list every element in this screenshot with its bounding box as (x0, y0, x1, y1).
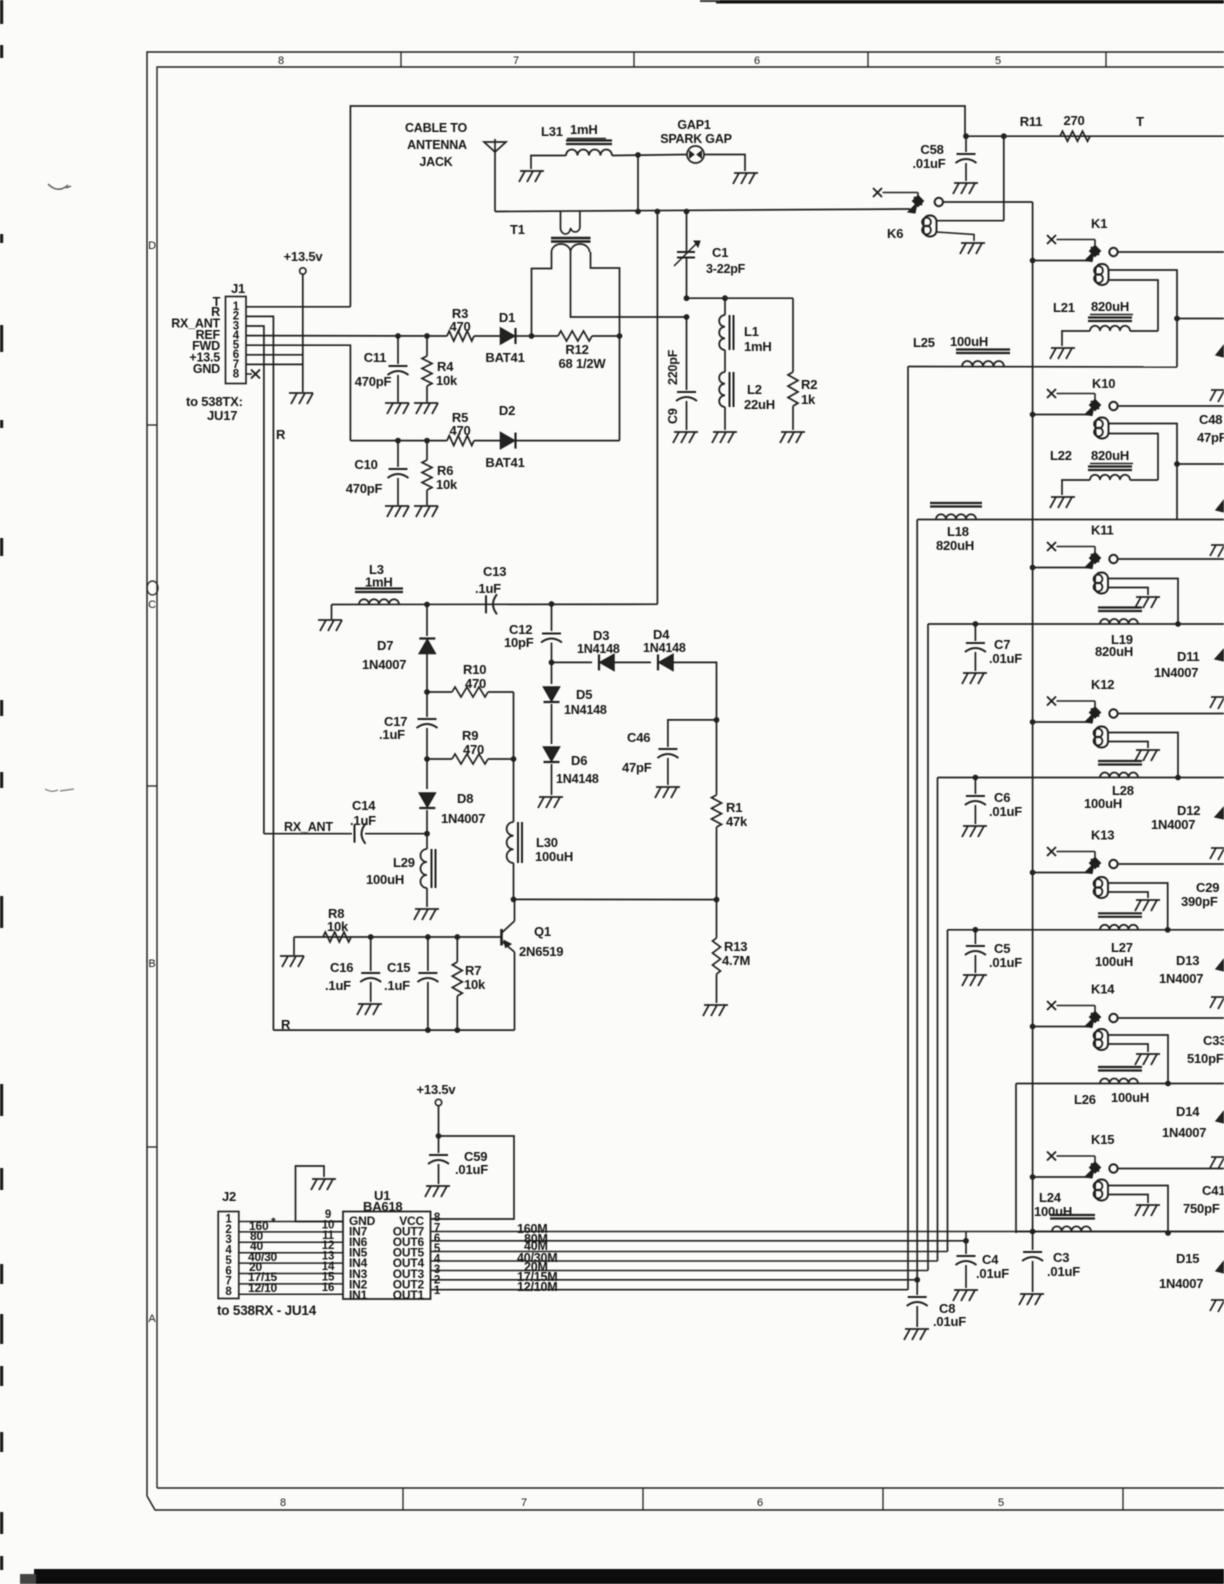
ground L31 (520, 170, 544, 172)
svg-text:to 538TX:: to 538TX: (186, 394, 243, 409)
svg-text:390pF: 390pF (1181, 894, 1218, 909)
svg-text:L1: L1 (744, 324, 759, 339)
diode D11 partial (1215, 649, 1224, 661)
wire row L24 (1016, 1231, 1224, 1233)
wire antenna bus (495, 209, 910, 212)
svg-text:D6: D6 (571, 753, 587, 768)
node R13 top (714, 897, 720, 903)
svg-text:10k: 10k (436, 477, 458, 492)
wire K14 coil bottom to ground (1108, 1044, 1148, 1052)
wire K6 circle to right bus (942, 201, 1032, 203)
svg-text:K11: K11 (1091, 523, 1114, 538)
svg-text:5: 5 (995, 55, 1001, 67)
inductor L24 (1050, 1214, 1095, 1216)
wire K11 output to edge (1118, 558, 1224, 560)
node C1 bottom (684, 295, 690, 301)
ground C3 (1020, 1293, 1044, 1295)
ground C58 (954, 182, 978, 184)
ground R4 (414, 402, 438, 404)
svg-text:C4: C4 (982, 1252, 999, 1267)
ground C59 (426, 1185, 450, 1187)
node K6 drop (1001, 133, 1007, 139)
inductor L28 (1098, 760, 1142, 762)
wire antenna column down to L3 row (656, 212, 658, 605)
node C46 tap (714, 717, 720, 723)
diode D10 partial (1216, 500, 1224, 512)
svg-text:C46: C46 (627, 730, 650, 745)
wire J1 pin2 R-net down (246, 316, 273, 1030)
svg-text:1N4148: 1N4148 (564, 703, 607, 717)
relay coil K6 (922, 218, 931, 227)
wire row L26 (1016, 1083, 1224, 1085)
svg-text:220pF: 220pF (666, 349, 680, 385)
svg-text:IN1: IN1 (349, 1288, 368, 1302)
relay coil K12 (1094, 729, 1103, 738)
wire C4 stub up (965, 1232, 967, 1241)
svg-text:R1: R1 (726, 800, 742, 815)
svg-text:D8: D8 (457, 791, 473, 806)
svg-text:10pF: 10pF (504, 635, 534, 650)
wire J1 pin5 FWD to T vertical (246, 345, 350, 440)
svg-text:D11: D11 (1177, 649, 1200, 664)
wire L27 corner vertical to bundle (947, 930, 949, 1252)
svg-text:C9: C9 (666, 408, 680, 424)
ground U1 (312, 1178, 336, 1180)
svg-text:2N6519: 2N6519 (519, 944, 563, 959)
svg-text:Q1: Q1 (534, 924, 551, 939)
ground C11 (385, 402, 409, 404)
wire L21 left to ground (1062, 331, 1090, 346)
wire collector row to R13 (514, 898, 717, 900)
svg-text:A: A (148, 1313, 156, 1325)
wire L18 row (917, 519, 1224, 521)
svg-text:R: R (281, 1017, 291, 1032)
svg-text:L25: L25 (913, 335, 935, 350)
svg-text:R2: R2 (801, 377, 817, 392)
svg-text:L2: L2 (747, 382, 762, 397)
node L1 top (722, 295, 728, 301)
wire L31 left to ground (531, 156, 566, 170)
svg-text:D3: D3 (593, 628, 609, 643)
svg-text:470pF: 470pF (346, 481, 383, 496)
svg-text:D: D (148, 240, 156, 252)
wire K15 input from bus (1033, 1176, 1089, 1178)
svg-text:C3: C3 (1053, 1250, 1069, 1265)
svg-text:BAT41: BAT41 (485, 350, 524, 365)
node L3/D7 junction (424, 602, 430, 608)
ground K6 coil (961, 242, 985, 244)
scan artifact: left edge dashes (0, 0, 3, 24)
svg-text:C16: C16 (330, 960, 353, 975)
svg-text:1N4007: 1N4007 (362, 657, 406, 672)
node C7 tap (973, 621, 979, 627)
svg-text:+13.5v: +13.5v (284, 249, 324, 264)
svg-text:B: B (148, 958, 155, 970)
wire K11 coil bottom to ground (1108, 588, 1148, 596)
wire K10 coil top to right vertical (1109, 424, 1178, 520)
antenna symbol (494, 139, 496, 212)
svg-text:820uH: 820uH (1091, 448, 1129, 463)
svg-text:R4: R4 (437, 359, 454, 374)
node K1 aux (1174, 316, 1180, 322)
zone ticks bottom (402, 1488, 404, 1510)
ground L21 (1051, 347, 1075, 349)
svg-text:K10: K10 (1092, 376, 1115, 391)
svg-text:1mH: 1mH (365, 575, 393, 590)
svg-text:1N4007: 1N4007 (1159, 971, 1203, 986)
svg-text:750pF: 750pF (1183, 1201, 1220, 1216)
wire +13.5v to C59 and VCC (438, 1106, 440, 1153)
svg-text:4.7M: 4.7M (722, 953, 750, 968)
svg-text:D2: D2 (499, 403, 515, 418)
ground C8 (905, 1328, 929, 1330)
ground C5 (963, 974, 987, 976)
inductor L19 (1098, 606, 1142, 608)
wire U1 GND loop to ground (296, 1166, 344, 1222)
wire L3 left to ground (331, 605, 333, 620)
node C16 tap (368, 934, 374, 940)
node T1 right leg (617, 333, 623, 339)
node R7 tap (454, 934, 460, 940)
wire T1 right leg to D2 row (619, 336, 621, 441)
wire L31 right (612, 155, 687, 156)
svg-text:510pF: 510pF (1187, 1051, 1224, 1066)
diode D15 partial (1216, 1261, 1224, 1273)
svg-text:1N4007: 1N4007 (1151, 817, 1195, 832)
ground K13 coil (1136, 899, 1160, 901)
wire K14 input from bus (1033, 1026, 1089, 1028)
svg-text:C1: C1 (712, 245, 728, 260)
svg-text:R13: R13 (724, 939, 747, 954)
relay coil K15 (1094, 1182, 1103, 1191)
svg-text:1mH: 1mH (570, 122, 598, 137)
wire K12 output to edge (1118, 713, 1224, 715)
node R4 tap (424, 333, 430, 339)
wire top box from T-net to R11 node (350, 106, 965, 307)
wire K1 coil top to right vertical (1109, 270, 1178, 367)
svg-text:D7: D7 (377, 638, 393, 653)
ground C16 (358, 1003, 382, 1005)
svg-text:1N4007: 1N4007 (1162, 1125, 1206, 1140)
svg-text:*: * (271, 1215, 276, 1229)
resistor R12 (532, 335, 559, 337)
diode D9 partial (1216, 345, 1224, 357)
svg-text:R9: R9 (462, 728, 478, 743)
svg-text:C29: C29 (1196, 880, 1219, 895)
svg-text:R11: R11 (1020, 114, 1043, 129)
svg-text:C15: C15 (387, 960, 410, 975)
svg-text:.01uF: .01uF (989, 651, 1022, 666)
ground C10 (385, 505, 409, 507)
svg-text:K15: K15 (1091, 1132, 1114, 1147)
wire R11 row (965, 135, 1224, 137)
node bus L24 row (1030, 1229, 1036, 1235)
ground L3 (318, 619, 342, 621)
wire K14 coil top to vertical (1108, 1035, 1168, 1084)
scan artifact: bottom black bar (34, 1569, 1224, 1584)
svg-text:L27: L27 (1111, 940, 1133, 955)
svg-text:1N4007: 1N4007 (441, 811, 485, 826)
relay coil K13 (1094, 879, 1103, 888)
node C8 tap (914, 1277, 920, 1283)
svg-text:.1uF: .1uF (379, 727, 405, 742)
zone ticks top (400, 52, 402, 67)
node C4 tap (963, 1238, 969, 1244)
scan artifact: small circle on left border (147, 581, 158, 595)
svg-text:C11: C11 (364, 350, 387, 365)
wire K10 coil bottom to L22 (1109, 434, 1159, 481)
svg-text:3-22pF: 3-22pF (706, 262, 746, 276)
svg-text:L30: L30 (536, 835, 558, 850)
svg-text:8: 8 (233, 368, 240, 380)
wire K12 coil top to vertical (1108, 733, 1178, 778)
wire row L19 (928, 623, 1224, 625)
wire K10 input from bus (1033, 414, 1089, 416)
wire K15 output to edge (1118, 1168, 1224, 1170)
wire K10 output to edge (1118, 405, 1224, 407)
wire K13 coil top to vertical (1108, 883, 1168, 930)
svg-text:T1: T1 (510, 222, 525, 237)
ground K15 coil (1136, 1204, 1160, 1206)
ground K12 coil (1136, 749, 1160, 751)
wire L22 left to ground (1062, 480, 1090, 495)
svg-text:C10: C10 (354, 457, 377, 472)
svg-text:K6: K6 (887, 226, 903, 241)
wire K13 coil bottom to ground (1108, 892, 1148, 898)
svg-text:270: 270 (1063, 113, 1084, 128)
ground J1 pin7 (289, 392, 313, 394)
svg-text:OUT1: OUT1 (393, 1288, 425, 1302)
svg-text:GAP1: GAP1 (677, 118, 710, 132)
svg-text:K13: K13 (1091, 828, 1114, 843)
node R9/L30 (511, 756, 517, 762)
svg-text:.01uF: .01uF (1047, 1264, 1080, 1279)
svg-text:.01uF: .01uF (976, 1266, 1009, 1281)
svg-text:C6: C6 (994, 790, 1010, 805)
svg-text:ANTENNA: ANTENNA (407, 138, 467, 152)
svg-text:C48: C48 (1199, 412, 1222, 427)
wire junction down to bus (637, 155, 639, 212)
wire L22 right (1130, 479, 1158, 481)
svg-text:C33: C33 (1203, 1033, 1224, 1048)
svg-text:.01uF: .01uF (989, 955, 1022, 970)
svg-text:BAT41: BAT41 (485, 455, 524, 470)
svg-text:1mH: 1mH (744, 339, 772, 354)
wire K6 coil bottom to ground (937, 232, 975, 241)
svg-text:L24: L24 (1039, 1190, 1062, 1205)
svg-text:D1: D1 (499, 310, 515, 325)
wire K11 coil top to vertical (1108, 579, 1178, 625)
svg-text:820uH: 820uH (936, 538, 974, 553)
wire K11 input from bus (1033, 567, 1089, 569)
wire K1 aux to edge (1177, 318, 1224, 320)
ground R13 (704, 1004, 728, 1006)
wire R rail bottom (273, 1029, 514, 1031)
relay coil K1 (1094, 266, 1103, 275)
scan artifact: pencil mark upper-left (48, 184, 71, 189)
svg-text:7: 7 (513, 55, 519, 67)
wire K12 coil bottom to ground (1108, 742, 1148, 749)
svg-text:.1uF: .1uF (325, 978, 351, 993)
svg-text:L31: L31 (541, 124, 563, 139)
svg-text:JACK: JACK (419, 155, 452, 169)
svg-text:D5: D5 (576, 687, 592, 702)
ground C4 (954, 1289, 978, 1291)
svg-text:K1: K1 (1091, 216, 1107, 231)
wire T1 center tap (571, 252, 687, 317)
wire RX_ANT row (264, 833, 352, 835)
diode D13 partial (1216, 959, 1224, 971)
ground C46 (656, 786, 680, 788)
svg-text:+13.5v: +13.5v (417, 1082, 457, 1097)
wire L28 corner vertical to bundle (937, 778, 939, 1262)
wire L3 row (332, 603, 658, 605)
svg-text:100uH: 100uH (1095, 954, 1133, 969)
ground C9 (674, 431, 698, 433)
wire row L28 (938, 777, 1224, 779)
svg-text:12/10: 12/10 (248, 1281, 278, 1295)
ground R2 (781, 431, 805, 433)
wire L21 right (1130, 330, 1158, 332)
node C15 rail (425, 1027, 431, 1033)
wire J1 pin4 REF row (246, 335, 447, 337)
svg-text:J1: J1 (231, 281, 245, 296)
zone ticks left (147, 424, 157, 426)
wire K13 input from bus (1033, 872, 1089, 874)
wire bus to C1 column (686, 212, 688, 253)
svg-text:7: 7 (521, 1497, 527, 1509)
svg-text:10k: 10k (436, 373, 458, 388)
wire J1 pin3 RX_ANT down (246, 326, 264, 834)
svg-text:C41: C41 (1202, 1183, 1224, 1198)
svg-text:D4: D4 (653, 627, 670, 642)
svg-text:100uH: 100uH (535, 849, 573, 864)
svg-text:L21: L21 (1053, 300, 1075, 315)
svg-text:100uH: 100uH (366, 872, 404, 887)
svg-text:1N4007: 1N4007 (1154, 665, 1198, 680)
node C12 top (549, 601, 555, 607)
svg-text:16: 16 (322, 1282, 334, 1294)
svg-text:22uH: 22uH (744, 397, 775, 412)
svg-text:R7: R7 (465, 963, 481, 978)
svg-text:47k: 47k (726, 814, 748, 829)
wire R10 to L30 vertical (513, 692, 515, 759)
svg-text:L22: L22 (1050, 448, 1072, 463)
wire K13 output to edge (1118, 863, 1224, 865)
wire Q1 emitter down to rail (514, 952, 516, 1030)
wire T1 secondary left leg (532, 252, 552, 336)
wire L18 corner vertical to bundle (916, 520, 918, 1280)
svg-text:.01uF: .01uF (933, 1314, 966, 1329)
node C5 tap (973, 927, 979, 933)
node T1 left leg (529, 333, 535, 339)
svg-text:K14: K14 (1091, 982, 1115, 997)
scan artifact: pencil mark mid-left (45, 789, 74, 791)
no-connect X at J1 pin 8 (246, 373, 252, 375)
wire K15 coil top to vertical (1108, 1186, 1168, 1234)
svg-text:1: 1 (434, 1285, 441, 1297)
svg-text:6: 6 (754, 55, 760, 67)
svg-text:5: 5 (998, 1497, 1004, 1509)
wire row L27 (948, 929, 1224, 931)
node L31/GAP1 junction (635, 152, 641, 158)
wire R8 row (294, 936, 502, 938)
node R9 tap (424, 756, 430, 762)
svg-text:D12: D12 (1177, 803, 1200, 818)
svg-text:470pF: 470pF (355, 374, 392, 389)
node RX_ANT/D8/L29 (424, 831, 430, 837)
wire K1 output to edge (1118, 251, 1224, 253)
wire L19 corner vertical to bundle (927, 624, 929, 1271)
svg-text:R6: R6 (437, 463, 453, 478)
wire K1 coil bottom to L21 (1109, 280, 1159, 331)
svg-text:820uH: 820uH (1091, 299, 1129, 314)
wire K10 aux to edge (1177, 463, 1224, 465)
svg-text:100uH: 100uH (950, 334, 988, 349)
wire L25 corner vertical to bundle (907, 367, 909, 1290)
svg-text:L29: L29 (393, 855, 415, 870)
svg-text:1k: 1k (801, 392, 816, 407)
svg-text:T: T (1136, 114, 1144, 129)
diode D12 partial (1215, 807, 1224, 819)
wire K14 output to edge (1118, 1017, 1224, 1019)
node C10 tap (395, 438, 401, 444)
ground partial right edge set (1211, 389, 1224, 391)
svg-text:.1uF: .1uF (384, 978, 410, 993)
ground C6 (963, 825, 987, 827)
svg-text:GND: GND (193, 362, 220, 376)
scan artifact: top-right edge black line (716, 0, 1224, 4)
wire Q1 collector up (514, 899, 516, 921)
svg-text:8: 8 (280, 1497, 286, 1509)
ground L2 (713, 431, 737, 433)
svg-text:100uH: 100uH (1111, 1090, 1149, 1105)
svg-text:K12: K12 (1091, 677, 1114, 692)
wire K1 input from bus (1033, 260, 1089, 262)
svg-text:D13: D13 (1176, 953, 1199, 968)
svg-text:C: C (148, 599, 156, 611)
ground K14 coil (1136, 1053, 1160, 1055)
wire L26 to L24 left vertical (1015, 1084, 1017, 1234)
wire K6 drop from R11 node (1003, 136, 1005, 221)
svg-text:100uH: 100uH (1034, 1204, 1072, 1219)
wire D4 to R1 (673, 662, 717, 720)
wire R5 row (350, 440, 447, 442)
svg-text:C7: C7 (994, 637, 1010, 652)
ground R6 (414, 505, 438, 507)
svg-text:8: 8 (278, 55, 284, 67)
svg-text:1N4148: 1N4148 (556, 772, 599, 786)
svg-text:1N4007: 1N4007 (1159, 1276, 1203, 1291)
inductor L27 (1098, 912, 1142, 914)
svg-text:L26: L26 (1074, 1092, 1096, 1107)
svg-text:SPARK GAP: SPARK GAP (660, 132, 732, 146)
svg-text:to 538RX - JU14: to 538RX - JU14 (217, 1303, 317, 1318)
ground D6 (539, 796, 563, 798)
border frame inner (157, 67, 1224, 1488)
svg-text:R: R (276, 427, 286, 442)
node R7 rail (454, 1027, 460, 1033)
svg-text:D15: D15 (1176, 1251, 1199, 1266)
svg-text:100uH: 100uH (1084, 796, 1122, 811)
svg-text:D14: D14 (1176, 1104, 1200, 1119)
wire K15 coil bottom to ground (1108, 1195, 1148, 1204)
ground C7 (963, 672, 987, 674)
svg-text:R12: R12 (565, 342, 588, 357)
svg-text:12/10M: 12/10M (517, 1280, 558, 1294)
ground R8 (280, 955, 304, 957)
node C6 tap (973, 775, 979, 781)
